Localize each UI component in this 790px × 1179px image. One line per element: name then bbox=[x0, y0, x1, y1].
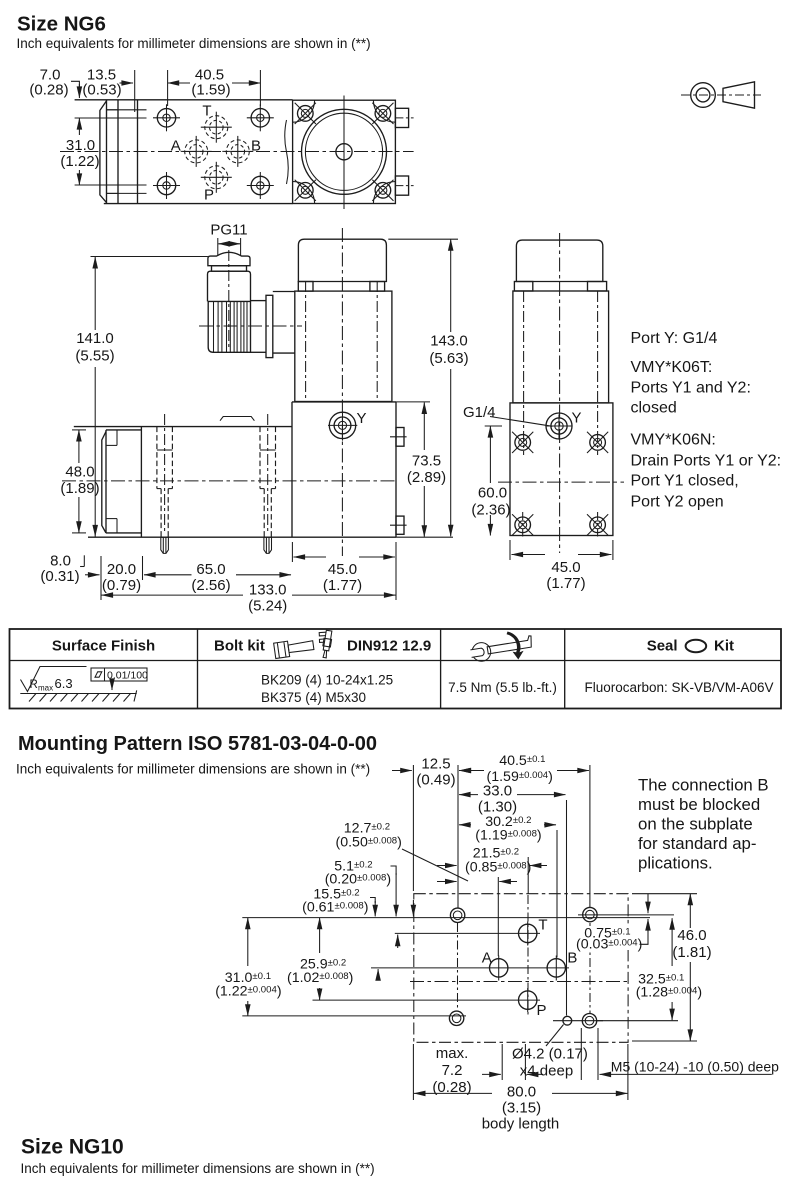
svg-text:DIN912 12.9: DIN912 12.9 bbox=[347, 638, 431, 655]
svg-text:PG11: PG11 bbox=[210, 222, 247, 239]
svg-text:(2.56): (2.56) bbox=[191, 577, 230, 594]
svg-text:BK209 (4) 10-24x1.25: BK209 (4) 10-24x1.25 bbox=[261, 673, 393, 688]
svg-text:A: A bbox=[482, 949, 492, 966]
svg-text:Drain Ports Y1 or Y2:: Drain Ports Y1 or Y2: bbox=[631, 453, 782, 470]
svg-text:for standard ap-: for standard ap- bbox=[638, 834, 756, 853]
svg-text:M5 (10-24) -10 (0.50) deep: M5 (10-24) -10 (0.50) deep bbox=[611, 1059, 779, 1075]
svg-text:(0.31): (0.31) bbox=[40, 568, 79, 585]
svg-text:143.0: 143.0 bbox=[430, 333, 468, 350]
svg-text:45.0: 45.0 bbox=[328, 561, 357, 578]
svg-text:(1.77): (1.77) bbox=[546, 575, 585, 592]
svg-text:Port Y: G1/4: Port Y: G1/4 bbox=[631, 330, 718, 347]
svg-text:80.0: 80.0 bbox=[507, 1084, 536, 1101]
svg-text:T: T bbox=[202, 103, 211, 120]
svg-text:(2.89): (2.89) bbox=[407, 469, 446, 486]
svg-text:46.0: 46.0 bbox=[677, 927, 706, 944]
svg-text:7.5 Nm (5.5 lb.-ft.): 7.5 Nm (5.5 lb.-ft.) bbox=[448, 680, 557, 695]
svg-text:(1.59): (1.59) bbox=[191, 82, 230, 99]
svg-text:20.0: 20.0 bbox=[107, 561, 136, 578]
svg-text:BK375 (4) M5x30: BK375 (4) M5x30 bbox=[261, 690, 366, 705]
svg-text:0.01/100: 0.01/100 bbox=[107, 670, 148, 682]
svg-text:B: B bbox=[251, 137, 261, 154]
svg-text:VMY*K06T:: VMY*K06T: bbox=[631, 359, 713, 376]
svg-text:(1.77): (1.77) bbox=[323, 577, 362, 594]
svg-text:(5.63): (5.63) bbox=[429, 350, 468, 367]
svg-text:12.5: 12.5 bbox=[421, 756, 450, 773]
svg-text:Inch equivalents for millimete: Inch equivalents for millimeter dimensio… bbox=[16, 762, 370, 777]
svg-text:must be blocked: must be blocked bbox=[638, 795, 760, 814]
svg-text:Inch equivalents for millimete: Inch equivalents for millimeter dimensio… bbox=[21, 1161, 375, 1176]
svg-text:x4 deep: x4 deep bbox=[520, 1063, 573, 1080]
svg-text:VMY*K06N:: VMY*K06N: bbox=[631, 432, 716, 449]
svg-text:body length: body length bbox=[482, 1116, 560, 1133]
svg-text:plications.: plications. bbox=[638, 854, 713, 873]
svg-text:(1.89): (1.89) bbox=[60, 480, 99, 497]
svg-text:48.0: 48.0 bbox=[65, 464, 94, 481]
svg-text:The connection B: The connection B bbox=[638, 776, 769, 795]
svg-text:Y: Y bbox=[357, 410, 367, 427]
svg-text:R: R bbox=[30, 679, 38, 691]
svg-text:max.: max. bbox=[436, 1045, 469, 1062]
svg-text:31.0: 31.0 bbox=[66, 137, 95, 154]
svg-text:(5.55): (5.55) bbox=[75, 348, 114, 365]
svg-text:60.0: 60.0 bbox=[478, 485, 507, 502]
svg-text:65.0: 65.0 bbox=[196, 561, 225, 578]
svg-text:6.3: 6.3 bbox=[55, 676, 73, 691]
svg-text:(0.53): (0.53) bbox=[82, 82, 121, 99]
svg-text:Seal: Seal bbox=[647, 638, 678, 655]
svg-text:closed: closed bbox=[631, 400, 677, 417]
svg-text:73.5: 73.5 bbox=[412, 453, 441, 470]
svg-text:133.0: 133.0 bbox=[249, 582, 287, 599]
svg-text:A: A bbox=[171, 137, 181, 154]
svg-text:8.0: 8.0 bbox=[50, 553, 71, 570]
svg-text:Ports Y1 and Y2:: Ports Y1 and Y2: bbox=[631, 380, 751, 397]
svg-text:P: P bbox=[204, 187, 214, 204]
svg-text:(0.28): (0.28) bbox=[29, 82, 68, 99]
svg-text:(3.15): (3.15) bbox=[502, 1100, 541, 1117]
svg-text:Mounting Pattern ISO 5781-03-0: Mounting Pattern ISO 5781-03-04-0-00 bbox=[18, 733, 377, 755]
svg-text:141.0: 141.0 bbox=[76, 330, 114, 347]
svg-text:(0.49): (0.49) bbox=[416, 772, 455, 789]
svg-text:Port Y1 closed,: Port Y1 closed, bbox=[631, 473, 739, 490]
svg-text:G1/4: G1/4 bbox=[463, 404, 496, 421]
svg-text:(2.36): (2.36) bbox=[471, 502, 510, 519]
svg-text:Fluorocarbon: SK-VB/VM-A06V: Fluorocarbon: SK-VB/VM-A06V bbox=[584, 680, 773, 695]
svg-text:Size NG6: Size NG6 bbox=[17, 13, 106, 36]
svg-text:T: T bbox=[538, 917, 547, 934]
svg-text:(1.30): (1.30) bbox=[478, 799, 517, 816]
svg-text:Bolt kit: Bolt kit bbox=[214, 638, 265, 655]
svg-text:Kit: Kit bbox=[714, 638, 734, 655]
svg-text:(1.22): (1.22) bbox=[60, 153, 99, 170]
svg-text:max: max bbox=[38, 684, 53, 693]
svg-text:Ø4.2 (0.17): Ø4.2 (0.17) bbox=[512, 1046, 588, 1063]
svg-text:on the subplate: on the subplate bbox=[638, 815, 753, 834]
svg-text:(0.79): (0.79) bbox=[102, 577, 141, 594]
svg-text:45.0: 45.0 bbox=[551, 559, 580, 576]
svg-text:Surface Finish: Surface Finish bbox=[52, 638, 155, 655]
svg-text:Port Y2 open: Port Y2 open bbox=[631, 494, 724, 511]
svg-text:Size NG10: Size NG10 bbox=[21, 1136, 124, 1159]
svg-text:Inch equivalents for millimete: Inch equivalents for millimeter dimensio… bbox=[17, 36, 371, 51]
svg-text:(1.81): (1.81) bbox=[672, 944, 711, 961]
svg-text:(5.24): (5.24) bbox=[248, 598, 287, 615]
svg-text:P: P bbox=[536, 1002, 546, 1019]
svg-text:7.2: 7.2 bbox=[442, 1062, 463, 1079]
svg-text:33.0: 33.0 bbox=[483, 783, 512, 800]
svg-text:Y: Y bbox=[572, 410, 582, 427]
